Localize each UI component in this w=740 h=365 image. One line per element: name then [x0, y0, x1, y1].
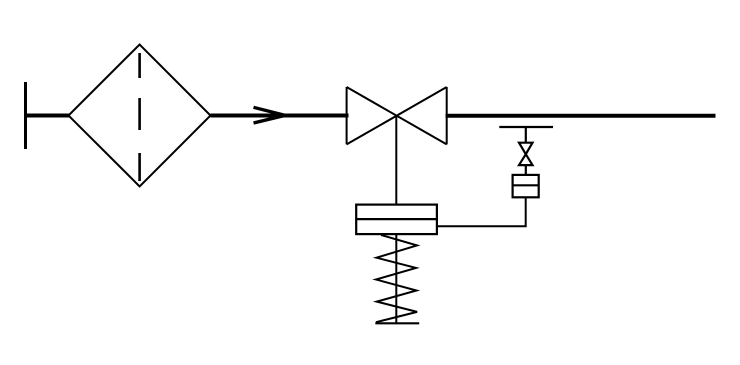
main pipe middle segment [211, 114, 349, 118]
control valve V1 body [347, 87, 447, 144]
needle valve NV1 [519, 143, 533, 165]
signal line from actuator to pilot [438, 197, 526, 226]
pilot regulator divider [513, 184, 539, 186]
diaphragm actuator housing [356, 205, 437, 235]
needle valve to pilot stem [525, 165, 527, 176]
filter F1 internal dashed element [138, 53, 141, 181]
main pipe inlet segment [24, 114, 69, 118]
spring [376, 235, 417, 322]
spring base plate [375, 322, 419, 324]
pilot regulator body [513, 175, 539, 197]
actuator diaphragm plate [356, 218, 437, 220]
valve stem [395, 116, 397, 205]
tap stem [525, 127, 527, 143]
filter F1 diamond body [69, 45, 211, 187]
main pipe outlet segment [446, 114, 716, 118]
flow direction arrow [254, 107, 286, 123]
pipe end cap [24, 82, 27, 149]
pressure tap bar [499, 126, 553, 128]
spring guide rod [395, 234, 397, 323]
